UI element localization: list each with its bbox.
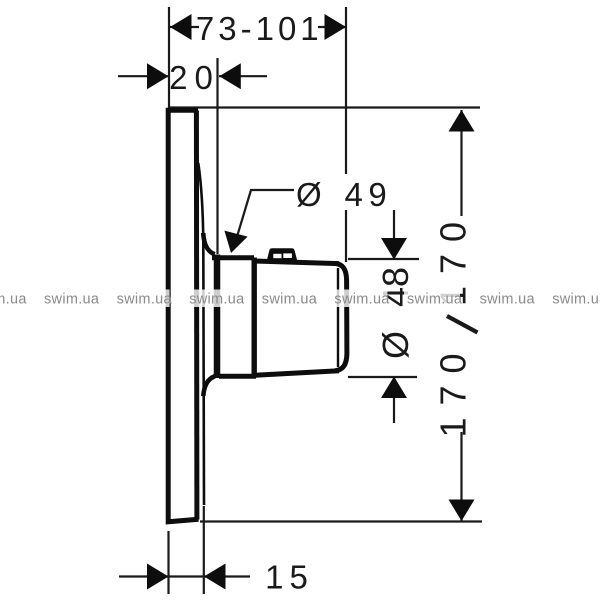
svg-text:Ø: Ø xyxy=(296,176,322,213)
svg-text:20: 20 xyxy=(169,59,220,96)
svg-text:swim.ua: swim.ua xyxy=(334,292,390,308)
svg-text:73-101: 73-101 xyxy=(196,10,323,47)
svg-text:swim.ua: swim.ua xyxy=(407,292,463,308)
svg-text:swim.ua: swim.ua xyxy=(262,292,318,308)
svg-text:170: 170 xyxy=(433,341,474,437)
svg-text:swim.ua: swim.ua xyxy=(44,292,100,308)
svg-text:swim.ua: swim.ua xyxy=(0,292,27,308)
svg-text:Ø: Ø xyxy=(375,331,416,359)
svg-text:swim.ua: swim.ua xyxy=(189,292,245,308)
svg-text:swim.ua: swim.ua xyxy=(552,292,600,308)
svg-text:swim.ua: swim.ua xyxy=(117,292,173,308)
svg-text:49: 49 xyxy=(345,176,393,213)
svg-text:15: 15 xyxy=(265,559,314,596)
svg-text:swim.ua: swim.ua xyxy=(480,292,536,308)
